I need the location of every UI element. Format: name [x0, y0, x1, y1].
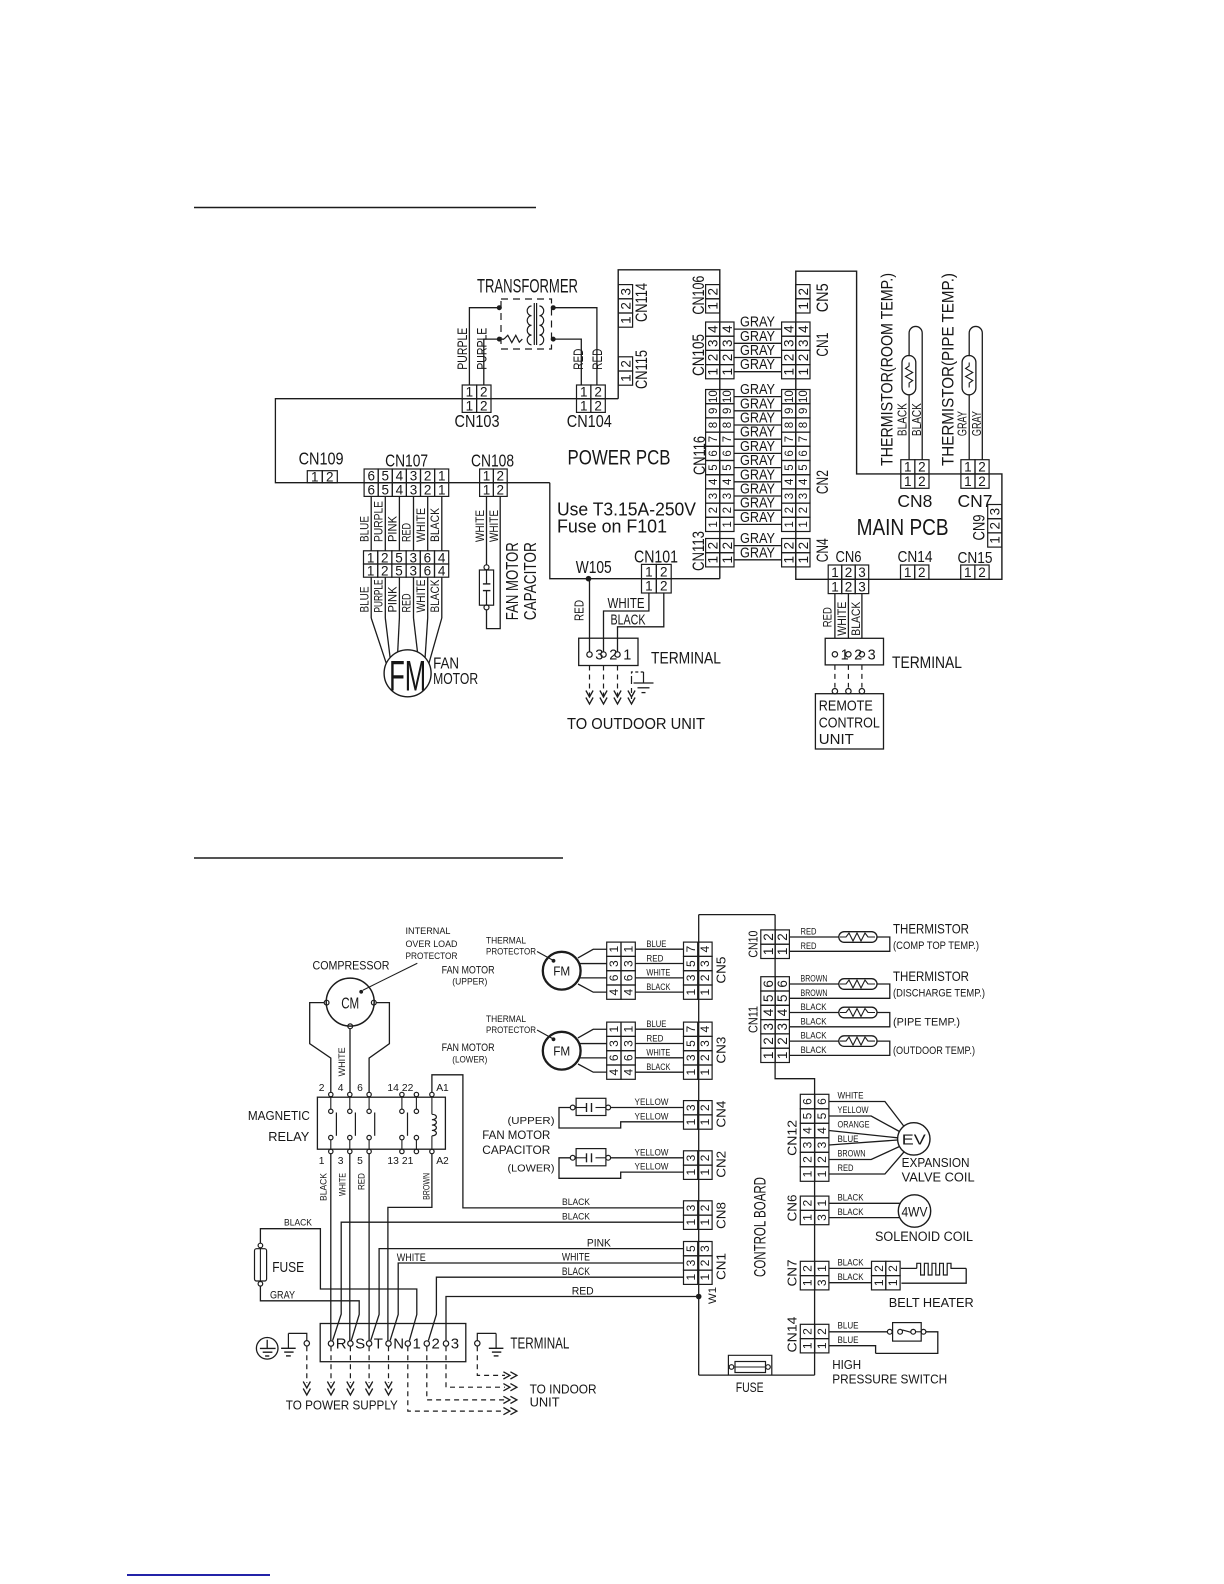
- svg-text:1: 1: [782, 368, 797, 376]
- svg-text:BLACK: BLACK: [895, 403, 910, 436]
- svg-text:CN14: CN14: [898, 549, 933, 566]
- svg-text:CN2: CN2: [814, 470, 832, 494]
- svg-text:2: 2: [798, 507, 810, 513]
- svg-text:RED: RED: [572, 1285, 594, 1297]
- connector CN109: [299, 449, 344, 485]
- svg-text:3: 3: [684, 974, 698, 981]
- wire: [484, 339, 504, 385]
- arrows to outdoor unit: [586, 691, 635, 705]
- svg-text:4WV: 4WV: [902, 1205, 928, 1220]
- svg-text:CAPACITOR: CAPACITOR: [482, 1145, 550, 1157]
- svg-text:CM: CM: [341, 996, 359, 1013]
- connector CN6 (control board): [785, 1195, 829, 1225]
- fuse F (control board): [728, 1355, 771, 1395]
- svg-text:3: 3: [720, 340, 735, 348]
- svg-text:THERMAL: THERMAL: [486, 936, 526, 946]
- svg-text:CN3: CN3: [713, 1037, 728, 1064]
- wire GRAY: [734, 410, 782, 412]
- svg-text:CN114: CN114: [633, 283, 651, 322]
- node transformer-junctions: [497, 305, 502, 310]
- svg-text:8: 8: [722, 422, 734, 428]
- svg-text:4: 4: [708, 478, 720, 485]
- svg-text:1: 1: [319, 1156, 325, 1167]
- connector CN115: [618, 350, 651, 389]
- svg-text:1: 1: [621, 1026, 635, 1033]
- ground: [281, 1333, 309, 1356]
- svg-text:TERMINAL: TERMINAL: [892, 654, 962, 672]
- svg-text:BROWN: BROWN: [801, 988, 828, 999]
- wire: [550, 483, 720, 579]
- thermistor discharge: [789, 979, 889, 999]
- svg-text:2: 2: [698, 1054, 712, 1061]
- svg-text:BLACK: BLACK: [849, 602, 863, 636]
- svg-text:UNIT: UNIT: [530, 1394, 560, 1409]
- svg-text:3: 3: [815, 1279, 829, 1286]
- svg-text:PROTECTOR: PROTECTOR: [486, 1025, 536, 1035]
- wire YELLOW top: [611, 1107, 684, 1109]
- svg-text:3: 3: [684, 1104, 698, 1111]
- svg-text:3: 3: [451, 1336, 459, 1353]
- svg-text:(PIPE TEMP.): (PIPE TEMP.): [893, 1016, 960, 1028]
- connector CN7: [958, 460, 993, 511]
- svg-text:R: R: [336, 1336, 347, 1353]
- svg-text:3: 3: [698, 1040, 712, 1047]
- svg-text:1: 1: [684, 988, 698, 995]
- svg-text:4: 4: [798, 478, 810, 485]
- svg-text:10: 10: [708, 390, 720, 403]
- svg-text:1: 1: [831, 579, 839, 594]
- svg-text:THERMAL: THERMAL: [486, 1014, 526, 1024]
- wire: [194, 207, 536, 209]
- svg-text:RELAY: RELAY: [268, 1130, 310, 1144]
- svg-text:6: 6: [607, 1054, 621, 1061]
- connector CN7 (control board): [785, 1260, 829, 1290]
- svg-text:BLACK: BLACK: [428, 579, 442, 613]
- svg-text:THERMISTOR(ROOM TEMP.): THERMISTOR(ROOM TEMP.): [879, 273, 897, 466]
- svg-text:PROTECTOR: PROTECTOR: [486, 947, 536, 957]
- svg-text:2: 2: [854, 647, 862, 663]
- wire GRAY: [734, 523, 782, 525]
- svg-text:EXPANSION: EXPANSION: [902, 1155, 970, 1170]
- svg-text:FAN MOTOR: FAN MOTOR: [482, 1130, 550, 1142]
- svg-text:RED: RED: [801, 927, 817, 938]
- svg-text:7: 7: [684, 946, 698, 953]
- connector CN15: [958, 550, 993, 580]
- wire GRAY: [734, 559, 782, 561]
- svg-text:CONTROL BOARD: CONTROL BOARD: [752, 1177, 770, 1277]
- protective earth symbol: [256, 1338, 278, 1360]
- svg-text:4: 4: [722, 478, 734, 485]
- svg-text:1: 1: [684, 1169, 698, 1176]
- wire dashed to outdoor: [589, 666, 591, 700]
- svg-text:3: 3: [868, 647, 876, 663]
- svg-text:1: 1: [722, 521, 734, 527]
- svg-text:BLACK: BLACK: [318, 1172, 329, 1201]
- wire dashed to remote control: [834, 665, 836, 688]
- wires plug to board: [635, 948, 683, 950]
- wire GRAY fuse-bottom to S: [260, 1286, 359, 1341]
- svg-text:2: 2: [326, 470, 334, 485]
- svg-text:RED: RED: [400, 593, 414, 612]
- thermistor comp-top: [789, 932, 889, 952]
- svg-text:2: 2: [918, 474, 926, 489]
- svg-text:CN6: CN6: [785, 1195, 800, 1222]
- svg-text:PRESSURE SWITCH: PRESSURE SWITCH: [832, 1372, 947, 1386]
- svg-text:2: 2: [801, 1200, 815, 1207]
- svg-text:2: 2: [319, 1083, 325, 1094]
- svg-text:1: 1: [798, 521, 810, 527]
- svg-text:3: 3: [858, 579, 866, 594]
- svg-text:VALVE COIL: VALVE COIL: [902, 1169, 975, 1184]
- svg-text:10: 10: [722, 390, 734, 403]
- svg-text:1: 1: [618, 316, 633, 324]
- wire pointer: [363, 963, 418, 990]
- svg-text:9: 9: [798, 408, 810, 414]
- svg-text:3: 3: [722, 493, 734, 499]
- svg-text:CN11: CN11: [746, 1006, 761, 1033]
- svg-text:5: 5: [684, 960, 698, 967]
- svg-text:1: 1: [607, 1026, 621, 1033]
- svg-text:GRAY: GRAY: [270, 1289, 296, 1301]
- svg-text:2: 2: [708, 507, 720, 513]
- svg-text:CN12: CN12: [785, 1120, 800, 1156]
- svg-text:RED: RED: [400, 523, 414, 542]
- svg-text:2: 2: [660, 564, 668, 579]
- ground (right): [475, 1333, 504, 1356]
- svg-text:3: 3: [798, 493, 810, 499]
- node W1: [696, 1294, 702, 1300]
- svg-text:1: 1: [698, 1169, 712, 1176]
- connector CN3: [684, 1022, 729, 1079]
- wire GRAY: [734, 481, 782, 483]
- svg-text:1: 1: [413, 1336, 421, 1353]
- svg-text:1: 1: [815, 1342, 829, 1349]
- svg-text:BLACK: BLACK: [284, 1217, 313, 1228]
- connector CN6: [828, 549, 869, 594]
- svg-text:8: 8: [708, 422, 720, 428]
- svg-text:WHITE: WHITE: [487, 510, 501, 542]
- svg-text:WHITE: WHITE: [608, 596, 645, 612]
- svg-text:1: 1: [761, 1052, 776, 1060]
- svg-text:6: 6: [357, 1083, 363, 1094]
- svg-text:Fuse on F101: Fuse on F101: [557, 516, 667, 537]
- svg-text:SOLENOID COIL: SOLENOID COIL: [875, 1228, 973, 1244]
- svg-text:BLACK: BLACK: [838, 1272, 864, 1283]
- wire BLACK CN1-1 to 2: [428, 1277, 683, 1340]
- svg-text:1: 1: [801, 1279, 815, 1286]
- svg-text:2: 2: [886, 1265, 900, 1272]
- svg-text:1: 1: [684, 1274, 698, 1281]
- svg-text:2: 2: [918, 565, 926, 580]
- svg-text:TRANSFORMER: TRANSFORMER: [477, 277, 578, 298]
- svg-text:5: 5: [684, 1245, 698, 1252]
- svg-text:RED: RED: [838, 1163, 854, 1174]
- svg-text:TERMINAL: TERMINAL: [510, 1336, 569, 1353]
- svg-text:3: 3: [761, 1023, 776, 1031]
- svg-text:1: 1: [483, 482, 491, 497]
- svg-text:MOTOR: MOTOR: [433, 671, 478, 688]
- svg-text:4: 4: [438, 564, 446, 579]
- wire dashed ground branch: [632, 672, 644, 679]
- wires plug to FM: [578, 949, 607, 958]
- svg-text:CN1: CN1: [814, 333, 832, 357]
- wire: [553, 308, 597, 385]
- svg-text:10: 10: [784, 390, 796, 403]
- svg-text:1: 1: [796, 302, 811, 310]
- svg-text:5: 5: [784, 464, 796, 470]
- svg-text:BLUE: BLUE: [646, 1019, 666, 1029]
- svg-text:FAN MOTOR: FAN MOTOR: [442, 1042, 495, 1054]
- connector CN114: [618, 283, 651, 327]
- belt heater element: [889, 1263, 974, 1310]
- wire PINK CN1-5 to T: [371, 1249, 684, 1341]
- svg-text:2: 2: [782, 542, 797, 550]
- svg-text:7: 7: [708, 436, 720, 442]
- svg-text:2: 2: [801, 1156, 815, 1163]
- svg-text:BLUE: BLUE: [838, 1321, 859, 1332]
- wire WHITE: [604, 593, 649, 652]
- svg-text:2: 2: [720, 542, 735, 550]
- connector fan-motor plug: [364, 550, 449, 578]
- svg-text:3: 3: [607, 960, 621, 967]
- svg-text:YELLOW: YELLOW: [635, 1147, 670, 1158]
- svg-text:1: 1: [841, 647, 849, 663]
- wire GRAY: [734, 424, 782, 426]
- svg-text:3: 3: [801, 1141, 815, 1148]
- svg-text:BLACK: BLACK: [801, 1002, 827, 1013]
- svg-text:MAGNETIC: MAGNETIC: [248, 1109, 310, 1123]
- svg-text:2: 2: [698, 1259, 712, 1266]
- svg-text:4: 4: [698, 946, 712, 953]
- svg-text:3: 3: [796, 340, 811, 348]
- svg-text:1: 1: [720, 368, 735, 376]
- wires dashed to indoor unit: [477, 1346, 505, 1375]
- svg-text:FM: FM: [553, 1044, 570, 1059]
- wire GRAY: [734, 495, 782, 497]
- svg-text:CN108: CN108: [471, 450, 514, 470]
- svg-text:7: 7: [684, 1026, 698, 1033]
- svg-text:CN7: CN7: [785, 1260, 800, 1287]
- svg-text:CN109: CN109: [299, 449, 344, 469]
- connector CN108: [471, 450, 514, 497]
- svg-text:2: 2: [381, 564, 389, 579]
- svg-text:5: 5: [798, 464, 810, 470]
- svg-text:3: 3: [684, 1054, 698, 1061]
- connector CN11: [746, 977, 791, 1063]
- svg-text:3: 3: [698, 960, 712, 967]
- svg-text:WHITE: WHITE: [646, 1048, 670, 1058]
- wire GRAY: [734, 328, 782, 330]
- svg-text:S: S: [355, 1336, 365, 1353]
- svg-text:(DISCHARGE TEMP.): (DISCHARGE TEMP.): [893, 987, 985, 999]
- svg-text:5: 5: [708, 464, 720, 470]
- connector CN103: [455, 385, 500, 431]
- svg-text:WHITE: WHITE: [414, 508, 428, 542]
- connector fan-motor plug (CN5): [607, 942, 636, 999]
- svg-text:THERMISTOR(PIPE TEMP.): THERMISTOR(PIPE TEMP.): [940, 273, 958, 466]
- svg-text:3: 3: [684, 1154, 698, 1161]
- svg-text:4: 4: [396, 482, 404, 497]
- wire GRAY: [734, 396, 782, 398]
- wire WHITE CN1-3 to N: [390, 1263, 683, 1341]
- svg-text:1: 1: [775, 1052, 790, 1060]
- node W105: [586, 576, 592, 582]
- svg-text:9: 9: [784, 408, 796, 414]
- svg-text:WHITE: WHITE: [337, 1173, 348, 1196]
- svg-text:3: 3: [858, 565, 866, 580]
- svg-text:2: 2: [618, 302, 633, 310]
- svg-text:RED: RED: [801, 941, 817, 952]
- svg-text:BELT HEATER: BELT HEATER: [889, 1295, 974, 1310]
- connector belt heater plug: [872, 1261, 901, 1290]
- connector CN9: [970, 505, 1002, 548]
- svg-text:2: 2: [660, 579, 668, 594]
- connector CN2: [684, 1151, 729, 1180]
- connector CN113: [690, 531, 735, 571]
- svg-text:GRAY: GRAY: [740, 544, 775, 561]
- svg-text:REMOTE: REMOTE: [819, 697, 873, 714]
- svg-text:6: 6: [621, 1054, 635, 1061]
- svg-text:CN10: CN10: [746, 931, 761, 958]
- svg-text:7: 7: [798, 436, 810, 442]
- svg-text:5: 5: [357, 1156, 363, 1167]
- svg-text:CN2: CN2: [713, 1151, 728, 1178]
- wire BLUE loop: [876, 1332, 938, 1354]
- svg-text:1: 1: [761, 948, 776, 956]
- svg-text:BLACK: BLACK: [838, 1193, 864, 1204]
- svg-text:4: 4: [784, 478, 796, 485]
- svg-text:1: 1: [645, 579, 653, 594]
- fan motor FM leads: [371, 618, 386, 663]
- svg-text:6: 6: [798, 450, 810, 456]
- svg-text:1: 1: [367, 564, 375, 579]
- svg-text:CN105: CN105: [690, 334, 708, 376]
- svg-text:(LOWER): (LOWER): [508, 1164, 555, 1175]
- svg-text:9: 9: [708, 408, 720, 414]
- wire BLUE top: [829, 1331, 888, 1333]
- arrows to indoor unit: [503, 1372, 517, 1415]
- svg-text:3: 3: [815, 1141, 829, 1148]
- thermistor room-temp: [902, 326, 922, 459]
- expansion valve coil EV: [898, 1123, 975, 1185]
- svg-text:RED: RED: [821, 607, 835, 627]
- svg-text:5: 5: [722, 464, 734, 470]
- connector fan-motor plug (CN3): [607, 1022, 636, 1079]
- svg-text:CN115: CN115: [633, 350, 651, 389]
- svg-text:RED: RED: [590, 349, 605, 370]
- svg-text:2: 2: [698, 1204, 712, 1211]
- connector CN5: [684, 942, 729, 999]
- svg-text:THERMISTOR: THERMISTOR: [893, 968, 969, 984]
- wire BLACK: [618, 593, 664, 652]
- svg-text:1: 1: [796, 368, 811, 376]
- svg-text:2: 2: [698, 1104, 712, 1111]
- svg-text:4: 4: [782, 325, 797, 333]
- svg-text:1: 1: [698, 988, 712, 995]
- svg-text:CN6: CN6: [836, 549, 862, 566]
- svg-text:4: 4: [338, 1083, 344, 1094]
- svg-text:2: 2: [722, 507, 734, 513]
- svg-text:1: 1: [801, 1170, 815, 1177]
- svg-text:22: 22: [402, 1083, 414, 1094]
- svg-text:1: 1: [904, 565, 912, 580]
- wire RED: [589, 579, 591, 652]
- svg-text:CN15: CN15: [958, 550, 993, 567]
- svg-text:1: 1: [904, 460, 912, 475]
- svg-text:3: 3: [775, 1023, 790, 1031]
- svg-text:1: 1: [815, 1170, 829, 1177]
- wire RED/WHITE/BLACK from CN6: [834, 594, 836, 639]
- svg-text:21: 21: [402, 1156, 414, 1167]
- svg-text:4: 4: [761, 1008, 776, 1016]
- connector CN4: [684, 1101, 729, 1130]
- svg-text:2: 2: [698, 974, 712, 981]
- svg-text:FAN: FAN: [433, 655, 459, 672]
- svg-text:OVER LOAD: OVER LOAD: [406, 939, 458, 949]
- control board top edge: [699, 914, 775, 916]
- svg-text:CONTROL: CONTROL: [819, 715, 880, 732]
- svg-text:1: 1: [872, 1279, 886, 1286]
- connector CN1 (control board): [684, 1242, 729, 1285]
- thermistor pipe-temp: [962, 326, 982, 459]
- Main PCB outline: [796, 271, 1002, 579]
- svg-text:BLACK: BLACK: [838, 1207, 864, 1218]
- svg-text:1: 1: [684, 1219, 698, 1226]
- svg-text:1: 1: [782, 556, 797, 564]
- svg-text:6: 6: [621, 974, 635, 981]
- wire compressor right lead: [369, 1003, 389, 1093]
- svg-text:PINK: PINK: [386, 586, 400, 613]
- svg-text:BLACK: BLACK: [646, 1062, 671, 1072]
- svg-text:WHITE: WHITE: [838, 1091, 864, 1102]
- svg-text:CAPACITOR: CAPACITOR: [520, 542, 540, 620]
- svg-text:2: 2: [761, 933, 776, 941]
- svg-text:BROWN: BROWN: [838, 1149, 866, 1160]
- svg-text:4: 4: [621, 1069, 635, 1076]
- svg-text:3: 3: [409, 564, 417, 579]
- svg-text:2: 2: [918, 460, 926, 475]
- svg-text:CN101: CN101: [634, 547, 678, 567]
- magnetic relay K1: [248, 1083, 449, 1167]
- svg-text:1: 1: [831, 565, 839, 580]
- svg-text:1: 1: [708, 521, 720, 527]
- svg-text:4: 4: [698, 1026, 712, 1033]
- svg-text:2: 2: [801, 1265, 815, 1272]
- svg-text:WHITE: WHITE: [473, 510, 487, 542]
- svg-text:5: 5: [815, 1112, 829, 1119]
- wires CN107 to motor connector: [370, 496, 372, 550]
- control board left bus: [698, 915, 700, 1376]
- solenoid coil 4WV: [875, 1195, 973, 1244]
- svg-text:6: 6: [722, 450, 734, 456]
- svg-text:BLUE: BLUE: [838, 1134, 859, 1145]
- svg-text:3: 3: [815, 1214, 829, 1221]
- svg-text:1: 1: [698, 1118, 712, 1125]
- svg-text:1: 1: [784, 521, 796, 527]
- svg-text:6: 6: [761, 980, 776, 988]
- svg-text:1: 1: [964, 565, 972, 580]
- connector CN5: [796, 283, 832, 313]
- svg-text:4: 4: [796, 325, 811, 333]
- wire RED relay-5 to T: [368, 1154, 370, 1341]
- svg-text:1: 1: [645, 564, 653, 579]
- svg-text:WHITE: WHITE: [337, 1047, 348, 1076]
- svg-text:(OUTDOOR TEMP.): (OUTDOOR TEMP.): [893, 1045, 975, 1057]
- svg-text:3: 3: [621, 960, 635, 967]
- svg-text:1: 1: [886, 1279, 900, 1286]
- svg-text:CN1: CN1: [713, 1253, 728, 1280]
- svg-text:3: 3: [698, 1245, 712, 1252]
